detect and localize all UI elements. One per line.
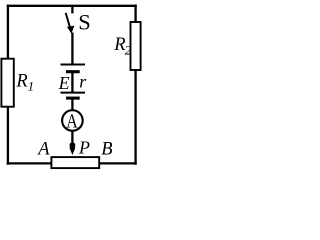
svg-text:S: S: [78, 10, 91, 35]
svg-text:B: B: [101, 140, 112, 160]
svg-text:2: 2: [125, 43, 132, 58]
svg-text:R: R: [15, 72, 27, 92]
svg-text:P: P: [78, 138, 90, 158]
svg-text:r: r: [79, 71, 87, 91]
svg-text:1: 1: [28, 79, 34, 94]
svg-text:A: A: [36, 140, 50, 160]
svg-text:A: A: [66, 110, 78, 132]
svg-text:E: E: [58, 73, 70, 93]
